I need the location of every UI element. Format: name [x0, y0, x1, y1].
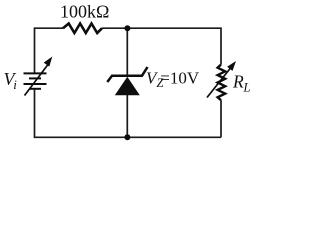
resistor R1 100k zigzag [63, 24, 102, 34]
svg-text:100kΩ: 100kΩ [60, 2, 109, 22]
zener D1 triangle [115, 77, 140, 96]
source Vi plates [24, 73, 47, 88]
zener D1 cathode bar [107, 67, 147, 82]
resistor RL variable arrow [207, 68, 231, 98]
svg-text:i: i [13, 77, 17, 92]
svg-text:=10V: =10V [160, 69, 200, 88]
resistor RL zigzag [218, 65, 226, 101]
wire: left lower segment [35, 89, 222, 138]
wire: right lower segment [220, 100, 222, 137]
svg-text:R: R [232, 72, 244, 92]
wire: top left segment [35, 28, 64, 73]
node: bottom junction [124, 134, 130, 140]
svg-text:L: L [243, 81, 251, 95]
source Vi variable arrow [25, 65, 49, 96]
wire: middle vertical lower [126, 95, 128, 137]
wire: top right segment [102, 28, 221, 64]
node: top junction [124, 25, 130, 31]
wire: middle vertical upper [126, 28, 128, 75]
